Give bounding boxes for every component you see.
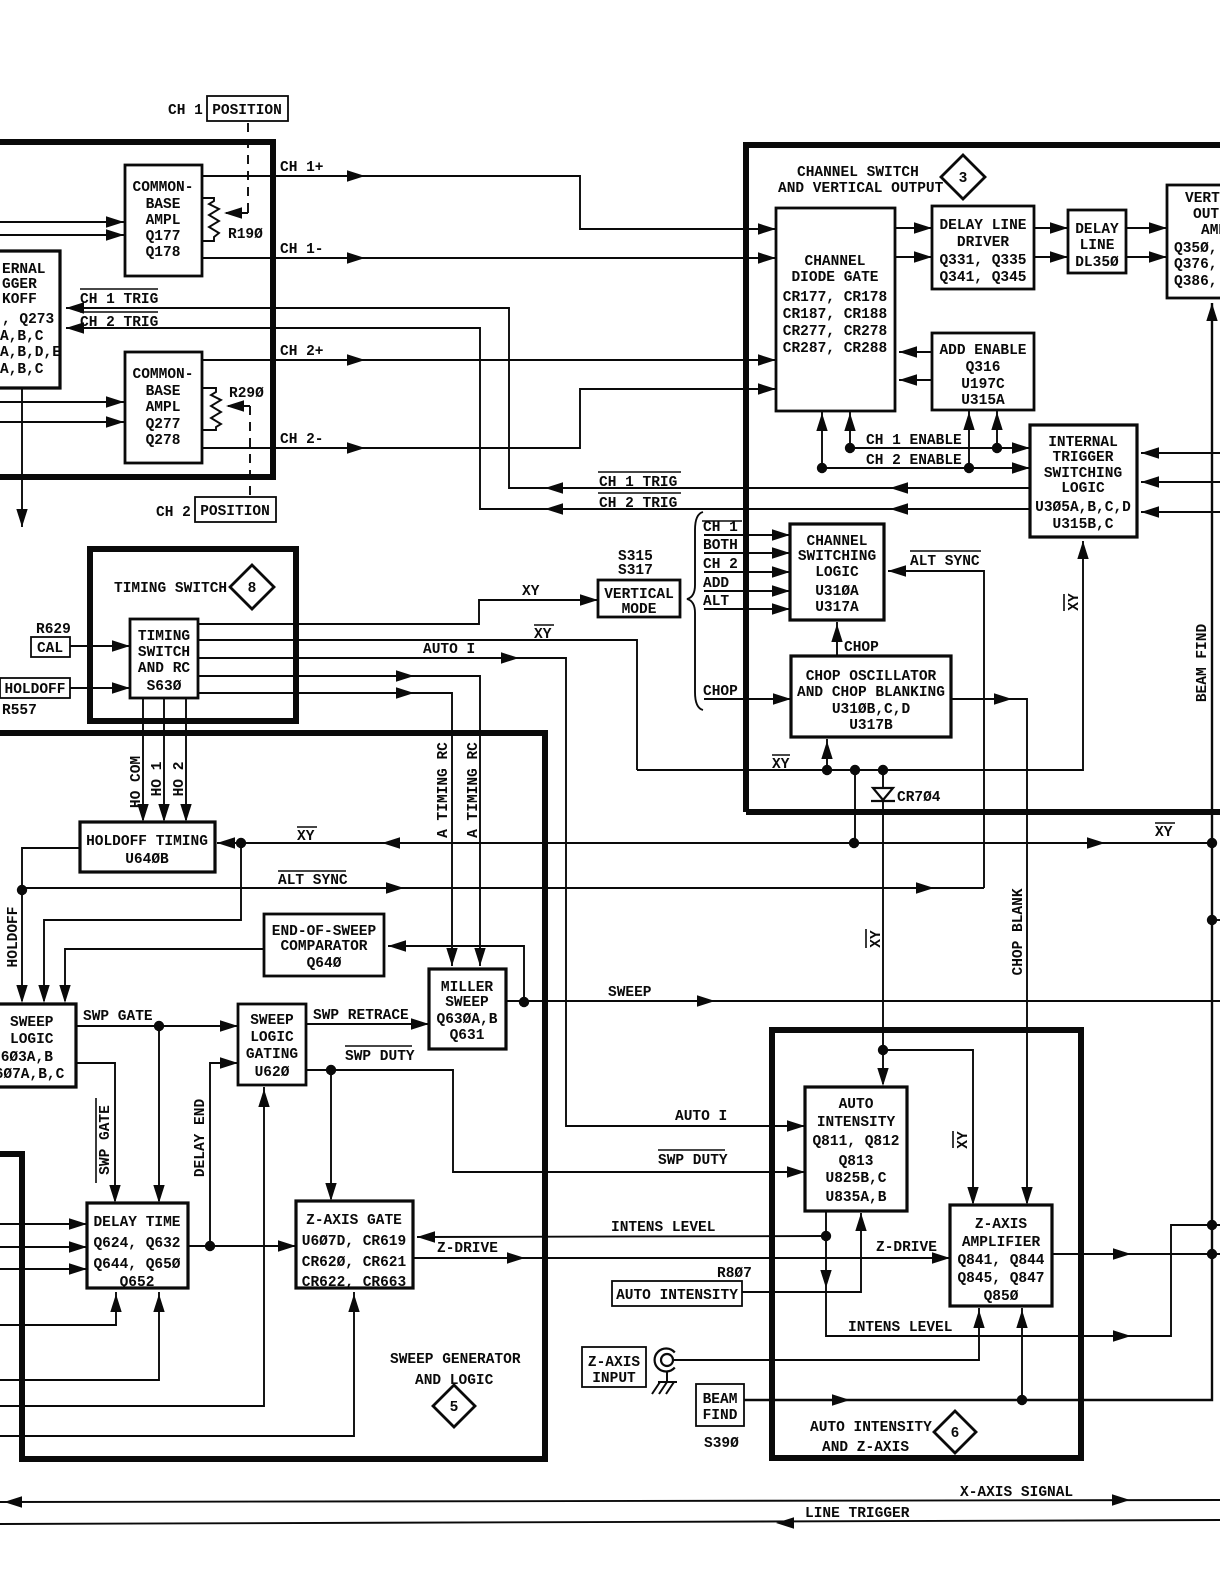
svg-text:U825B,C: U825B,C: [826, 1171, 887, 1187]
svg-text:COMMON-: COMMON-: [133, 367, 194, 383]
wire riser to add enable right: [991, 410, 1002, 448]
label CH 2 TRIG (right set): [598, 493, 681, 512]
control CH 1 POSITION: [168, 96, 288, 121]
svg-text:OUTP: OUTP: [1193, 207, 1220, 223]
svg-text:CHOP: CHOP: [844, 640, 879, 656]
svg-text:5: 5: [450, 1400, 459, 1416]
wire XY to vertical mode: [198, 584, 598, 624]
svg-text:HOLDOFF: HOLDOFF: [5, 682, 66, 698]
svg-text:ADD ENABLE: ADD ENABLE: [939, 343, 1026, 359]
svg-text:INTENS LEVEL: INTENS LEVEL: [611, 1220, 715, 1236]
vertical preamp block partial thick border: [0, 142, 273, 477]
diamond 5: [433, 1385, 475, 1427]
svg-text:CH 1+: CH 1+: [280, 160, 324, 176]
svg-text:INTENSITY: INTENSITY: [817, 1115, 896, 1131]
wire Z-DRIVE output to CRT: [1052, 1248, 1220, 1259]
svg-text:CH 1-: CH 1-: [280, 242, 324, 258]
svg-text:ALT: ALT: [703, 594, 729, 610]
svg-text:TIMING: TIMING: [138, 629, 190, 645]
svg-text:SWEEP: SWEEP: [445, 995, 489, 1011]
svg-text:INPUT: INPUT: [592, 1371, 636, 1387]
wire XY-bar row to holdoff timing: [217, 823, 1217, 849]
wire CH 1 ENABLE: [845, 433, 1030, 454]
enable block ADD ENABLE: [932, 333, 1034, 410]
brace vertical mode: [687, 512, 703, 710]
dashed wire CH2 position to R290 wiper: [226, 400, 250, 495]
svg-text:BASE: BASE: [146, 384, 181, 400]
svg-text:BEAM: BEAM: [703, 1392, 738, 1408]
wire riser XY-bar to chop oscillator: [821, 739, 832, 770]
svg-text:Q85Ø: Q85Ø: [984, 1289, 1019, 1305]
svg-text:ERNAL: ERNAL: [2, 262, 46, 278]
svg-text:AND Z-AXIS: AND Z-AXIS: [822, 1440, 909, 1456]
svg-text:U3Ø5A,B,C,D: U3Ø5A,B,C,D: [1035, 500, 1131, 516]
timing block HOLDOFF TIMING U640B: [80, 822, 215, 872]
wire miller output to comparator: [388, 940, 524, 1002]
oscillator block CHOP OSCILLATOR AND CHOP BLANKING: [791, 656, 951, 737]
delay block DELAY TIME: [87, 1203, 188, 1291]
wire SWEEP output row: [506, 985, 1220, 1007]
wire mode ADD: [703, 576, 790, 597]
wire delay time input 3: [0, 1263, 87, 1274]
svg-text:CR62Ø, CR621: CR62Ø, CR621: [302, 1255, 407, 1271]
wire LINE TRIGGER: [0, 1506, 1220, 1529]
svg-text:LOGIC: LOGIC: [250, 1030, 294, 1046]
svg-text:CHOP BLANK: CHOP BLANK: [1011, 888, 1027, 975]
svg-text:S63Ø: S63Ø: [147, 679, 182, 695]
svg-text:Q278: Q278: [146, 433, 181, 449]
wire comparator output to sweep logic: [59, 949, 264, 1003]
svg-text:A,B,C: A,B,C: [0, 362, 44, 378]
wire input to Q177 upper: [0, 216, 124, 227]
svg-text:Q811, Q812: Q811, Q812: [812, 1134, 899, 1150]
timing switch block 8 thick border: [90, 549, 296, 721]
svg-text:A,B,D,E: A,B,D,E: [0, 345, 61, 361]
control CH 2 POSITION: [156, 497, 276, 522]
svg-text:DRIVER: DRIVER: [957, 235, 1010, 251]
wire ALT SYNC into switching logic: [888, 551, 984, 888]
wire CH 1 TRIG to pickoff: [66, 289, 1030, 494]
wire input to Q277 lower: [0, 416, 124, 427]
wire mode CH 2: [703, 557, 790, 578]
wire add enable to diode gate upper: [899, 346, 932, 357]
dashed wire CH1 position to R190 wiper: [224, 123, 248, 219]
wire INTENS LEVEL into z-axis gate: [417, 1220, 826, 1243]
svg-text:R19Ø: R19Ø: [228, 227, 263, 243]
svg-text:Q35Ø,: Q35Ø,: [1174, 241, 1218, 257]
svg-text:Q845, Q847: Q845, Q847: [957, 1271, 1044, 1287]
svg-text:LINE TRIGGER: LINE TRIGGER: [805, 1506, 910, 1522]
wire enable riser to diode gate left: [816, 411, 827, 468]
wire CHOP into chop oscillator: [703, 684, 791, 705]
svg-text:XY: XY: [956, 1131, 972, 1149]
wire delay time output to z-axis gate: [188, 1240, 296, 1251]
wire SWP RETRACE: [306, 1008, 429, 1030]
diamond 8: [230, 565, 274, 609]
wire diode gate to delay line driver lower: [895, 251, 932, 262]
svg-text:CH 2 TRIG: CH 2 TRIG: [599, 496, 677, 512]
diamond 3: [941, 155, 985, 199]
svg-text:U197C: U197C: [961, 377, 1005, 393]
node to horizontal amplifier: [1207, 915, 1220, 925]
svg-text:CH 1: CH 1: [703, 520, 738, 536]
svg-text:FIND: FIND: [703, 1408, 738, 1424]
svg-text:Q624, Q632: Q624, Q632: [93, 1236, 180, 1252]
wire mode ALT: [703, 594, 790, 615]
svg-text:SWITCHING: SWITCHING: [798, 549, 876, 565]
svg-text:AND VERTICAL OUTPUT: AND VERTICAL OUTPUT: [778, 181, 944, 197]
diode CR704: [855, 770, 941, 1050]
svg-text:CH 1: CH 1: [168, 103, 203, 119]
svg-text:MODE: MODE: [622, 602, 657, 618]
svg-text:CR177, CR178: CR177, CR178: [783, 290, 887, 306]
comparator block END-OF-SWEEP COMPARATOR Q640: [264, 914, 384, 976]
svg-text:HOLDOFF: HOLDOFF: [6, 907, 22, 968]
switch S390 BEAM FIND: [696, 1384, 744, 1452]
wire XY-bar from timing switch: [198, 625, 637, 770]
wire diode gate to delay line driver upper: [895, 222, 932, 233]
svg-text:CHOP OSCILLATOR: CHOP OSCILLATOR: [806, 669, 937, 685]
svg-text:INTERNAL: INTERNAL: [1048, 435, 1118, 451]
svg-text:LOGIC: LOGIC: [1061, 481, 1105, 497]
svg-text:SWEEP: SWEEP: [10, 1015, 54, 1031]
amplifier block Q177 COMMON-BASE AMPL: [125, 165, 202, 276]
svg-text:DIODE GATE: DIODE GATE: [791, 270, 878, 286]
svg-text:AMPLIFIER: AMPLIFIER: [962, 1235, 1041, 1251]
svg-text:HO COM: HO COM: [129, 756, 145, 808]
svg-text:A TIMING RC: A TIMING RC: [466, 742, 482, 838]
svg-text:LOGIC: LOGIC: [10, 1032, 54, 1048]
switch S630 TIMING SWITCH AND RC: [130, 619, 198, 698]
wire beam find branch to z-axis amplifier: [1016, 1308, 1027, 1400]
connector Z-AXIS INPUT: [582, 1347, 675, 1387]
label SWEEP GENERATOR AND LOGIC: [390, 1352, 521, 1389]
svg-text:U317B: U317B: [849, 718, 893, 734]
label AUTO INTENSITY AND Z-AXIS: [810, 1420, 932, 1456]
svg-text:8: 8: [248, 581, 257, 597]
svg-text:GGER: GGER: [2, 277, 37, 293]
svg-text:AUTO: AUTO: [839, 1097, 874, 1113]
svg-text:, Q273: , Q273: [2, 312, 54, 328]
svg-text:ADD: ADD: [703, 576, 729, 592]
svg-text:XY: XY: [1067, 593, 1083, 611]
svg-text:XY: XY: [869, 930, 885, 948]
wire input to Q177 lower: [0, 229, 124, 240]
amplifier block Q277 COMMON-BASE AMPL: [125, 352, 202, 463]
auto intensity block 6 thick border: [772, 1030, 1081, 1458]
svg-text:CH 1 TRIG: CH 1 TRIG: [599, 475, 677, 491]
svg-text:XY: XY: [1155, 825, 1173, 841]
svg-text:Z-AXIS GATE: Z-AXIS GATE: [306, 1213, 402, 1229]
wire SWP GATE: [76, 1009, 238, 1032]
svg-text:CH 2-: CH 2-: [280, 432, 324, 448]
svg-text:CHANNEL: CHANNEL: [805, 254, 866, 270]
wire HO COM: [129, 698, 149, 822]
control R557 HOLDOFF: [0, 678, 130, 719]
svg-text:U31ØB,C,D: U31ØB,C,D: [832, 702, 911, 718]
svg-text:HO 2: HO 2: [172, 762, 188, 797]
wire HO 2: [172, 698, 192, 822]
svg-text:Q177: Q177: [146, 229, 181, 245]
svg-text:INTENS LEVEL: INTENS LEVEL: [848, 1320, 952, 1336]
wire XY-bar into block 6: [877, 1045, 888, 1086]
svg-text:CH 1 ENABLE: CH 1 ENABLE: [866, 433, 962, 449]
wire XY-bar branch to z-axis amplifier: [883, 1050, 979, 1205]
svg-text:CR7Ø4: CR7Ø4: [897, 790, 941, 806]
svg-text:A TIMING RC: A TIMING RC: [436, 742, 452, 838]
wire delay gate riser to sweep logic gating bottom: [0, 1087, 270, 1406]
wire INTENS LEVEL from auto intensity: [820, 1211, 831, 1333]
svg-text:VERTI: VERTI: [1185, 191, 1220, 207]
svg-text:Q386,: Q386,: [1174, 274, 1218, 290]
wire SWP GATE branch to delay time: [153, 1026, 164, 1203]
svg-text:U835A,B: U835A,B: [826, 1190, 887, 1206]
wire INTENS LEVEL to z-axis amplifier and CRT: [826, 1220, 1220, 1342]
svg-text:Q63ØA,B: Q63ØA,B: [437, 1012, 498, 1028]
svg-text:LOGIC: LOGIC: [815, 565, 859, 581]
driver block DELAY LINE DRIVER: [932, 206, 1034, 289]
channel switch block 3 thick border: [746, 145, 1220, 812]
logic block INTERNAL TRIGGER SWITCHING LOGIC: [1030, 425, 1137, 537]
svg-text:Q64Ø: Q64Ø: [307, 956, 342, 972]
svg-text:SWEEP: SWEEP: [250, 1013, 294, 1029]
svg-text:TRIGGER: TRIGGER: [1053, 450, 1114, 466]
wire delay line to vertical output upper: [1126, 222, 1167, 233]
resistor R290: [202, 386, 264, 430]
wire SWP DUTY branch to z-axis gate: [325, 1070, 336, 1201]
wire z-axis input to amplifier: [673, 1308, 985, 1360]
svg-text:U6Ø7A,B,C: U6Ø7A,B,C: [0, 1067, 65, 1083]
svg-text:BOTH: BOTH: [703, 538, 738, 554]
svg-text:CHANNEL: CHANNEL: [807, 534, 868, 550]
wire z-axis gate bottom input: [0, 1292, 360, 1436]
svg-text:R29Ø: R29Ø: [229, 386, 264, 402]
wire AUTO I: [198, 642, 805, 1132]
svg-text:Q316: Q316: [966, 360, 1001, 376]
label XY-bar rotated at block 6 riser: [866, 929, 885, 948]
svg-text:Q331, Q335: Q331, Q335: [939, 253, 1026, 269]
svg-text:CH 1 TRIG: CH 1 TRIG: [80, 292, 158, 308]
wire Z-DRIVE to z-axis amplifier: [413, 1240, 950, 1264]
diamond 6: [934, 1411, 976, 1453]
internal trigger pickoff block (cut at page edge): [0, 251, 61, 388]
svg-text:KOFF: KOFF: [2, 292, 37, 308]
control VERTICAL MODE: [598, 549, 680, 618]
svg-text:U6Ø7D, CR619: U6Ø7D, CR619: [302, 1234, 406, 1250]
svg-text:CR187, CR188: CR187, CR188: [783, 307, 887, 323]
resistor R190: [202, 198, 263, 243]
label TIMING SWITCH: [114, 581, 227, 597]
sweep block MILLER SWEEP Q630: [429, 969, 506, 1049]
svg-text:SWITCHING: SWITCHING: [1044, 466, 1122, 482]
wire SWP DUTY: [306, 1046, 805, 1178]
svg-text:AUTO I: AUTO I: [675, 1109, 727, 1125]
svg-text:ALT SYNC: ALT SYNC: [278, 873, 348, 889]
svg-text:CH 2+: CH 2+: [280, 344, 324, 360]
svg-text:S39Ø: S39Ø: [704, 1436, 739, 1452]
wire delay time input 1: [0, 1218, 87, 1229]
svg-text:DL35Ø: DL35Ø: [1075, 255, 1119, 271]
wire holdoff timing left to sweep logic: [6, 848, 80, 1003]
wire A TIMING RC 2: [198, 687, 458, 966]
svg-text:U62Ø: U62Ø: [255, 1065, 290, 1081]
svg-text:A,B,C: A,B,C: [0, 329, 44, 345]
svg-text:U315B,C: U315B,C: [1053, 517, 1114, 533]
wire CH 2-: [202, 383, 776, 453]
svg-text:Q376,: Q376,: [1174, 257, 1218, 273]
svg-text:ALT SYNC: ALT SYNC: [910, 554, 980, 570]
svg-text:U315A: U315A: [961, 393, 1005, 409]
wire XY-bar row in channel switch: [637, 541, 1089, 775]
svg-text:DELAY TIME: DELAY TIME: [93, 1215, 180, 1231]
wire CH 2+: [202, 344, 776, 366]
svg-text:Q178: Q178: [146, 245, 181, 261]
svg-text:HOLDOFF TIMING: HOLDOFF TIMING: [86, 834, 208, 850]
wire CH 1+: [202, 160, 776, 235]
wire X-AXIS SIGNAL: [0, 1485, 1220, 1508]
svg-text:S317: S317: [618, 563, 653, 579]
svg-text:SWP RETRACE: SWP RETRACE: [313, 1008, 409, 1024]
wire into trigger logic right 2: [1141, 476, 1220, 487]
svg-text:END-OF-SWEEP: END-OF-SWEEP: [272, 924, 377, 940]
svg-text:CH 2: CH 2: [156, 505, 191, 521]
svg-text:Q813: Q813: [839, 1154, 874, 1170]
svg-text:U6Ø3A,B: U6Ø3A,B: [0, 1050, 53, 1066]
svg-text:Z-AXIS: Z-AXIS: [975, 1217, 1028, 1233]
wire SWP GATE-bar to delay time: [76, 1063, 121, 1203]
svg-text:X-AXIS SIGNAL: X-AXIS SIGNAL: [960, 1485, 1073, 1501]
wire into trigger logic right 3: [1141, 506, 1220, 517]
svg-text:Q644, Q65Ø: Q644, Q65Ø: [93, 1257, 180, 1273]
svg-text:CR287, CR288: CR287, CR288: [783, 341, 887, 357]
svg-text:SWITCH: SWITCH: [138, 645, 190, 661]
gate block Z-AXIS GATE: [296, 1201, 413, 1291]
svg-text:SWP DUTY: SWP DUTY: [658, 1153, 728, 1169]
control R807 AUTO INTENSITY: [612, 1213, 867, 1306]
svg-text:Z-DRIVE: Z-DRIVE: [437, 1241, 498, 1257]
wire delay time bottom input 1: [0, 1292, 122, 1325]
label CH 1 TRIG (right set): [598, 472, 681, 491]
svg-text:DELAY END: DELAY END: [193, 1099, 209, 1178]
wire ALT SYNC row: [17, 871, 984, 895]
svg-text:CR277, CR278: CR277, CR278: [783, 324, 887, 340]
logic block SWEEP LOGIC GATING U620: [238, 1004, 306, 1085]
svg-text:Z-AXIS: Z-AXIS: [588, 1355, 641, 1371]
wire enable riser to diode gate right: [844, 411, 855, 448]
wire down from pickoff: [16, 388, 27, 527]
svg-text:POSITION: POSITION: [212, 103, 282, 119]
svg-text:AND RC: AND RC: [138, 661, 191, 677]
wire delay line to vertical output lower: [1126, 251, 1167, 262]
svg-text:Q341, Q345: Q341, Q345: [939, 270, 1026, 286]
wire beam find row and right riser: [744, 303, 1218, 1406]
logic block SWEEP LOGIC (cut at page edge): [0, 1004, 76, 1087]
svg-text:AND CHOP BLANKING: AND CHOP BLANKING: [797, 685, 945, 701]
svg-text:TIMING SWITCH: TIMING SWITCH: [114, 581, 227, 597]
sweep generator block 5 thick border: [0, 733, 545, 1459]
wire add enable to diode gate lower: [899, 374, 932, 385]
svg-text:Q841, Q844: Q841, Q844: [957, 1253, 1044, 1269]
svg-text:CHANNEL SWITCH: CHANNEL SWITCH: [797, 165, 919, 181]
svg-text:COMMON-: COMMON-: [133, 180, 194, 196]
svg-text:CH 2: CH 2: [703, 557, 738, 573]
svg-text:U317A: U317A: [815, 600, 859, 616]
wire riser to add enable left: [963, 410, 974, 468]
svg-text:CH 2 ENABLE: CH 2 ENABLE: [866, 453, 962, 469]
svg-text:DELAY: DELAY: [1075, 222, 1119, 238]
svg-text:GATING: GATING: [246, 1047, 298, 1063]
svg-text:HO 1: HO 1: [150, 761, 166, 796]
svg-text:CHOP: CHOP: [703, 684, 738, 700]
intensity block AUTO INTENSITY: [805, 1087, 907, 1211]
wire delay time input 2: [0, 1241, 87, 1252]
svg-text:Q652: Q652: [120, 1275, 155, 1291]
svg-text:SWP GATE: SWP GATE: [83, 1009, 153, 1025]
svg-text:COMPARATOR: COMPARATOR: [280, 939, 367, 955]
control R629 CAL: [31, 622, 130, 657]
svg-text:BASE: BASE: [146, 197, 181, 213]
svg-text:LINE: LINE: [1080, 238, 1115, 254]
svg-text:R8Ø7: R8Ø7: [717, 1266, 752, 1282]
wire mode CH 1: [702, 520, 790, 541]
svg-text:R557: R557: [2, 703, 37, 719]
svg-text:SWP DUTY: SWP DUTY: [345, 1049, 415, 1065]
svg-text:U64ØB: U64ØB: [125, 852, 169, 868]
delay line DL350: [1068, 210, 1126, 273]
svg-text:VERTICAL: VERTICAL: [604, 587, 674, 603]
wire CH 2 TRIG to pickoff: [66, 312, 1030, 515]
svg-text:SWEEP: SWEEP: [608, 985, 652, 1001]
wire CHOP BLANK: [951, 693, 1033, 1205]
gate block CHANNEL DIODE GATE: [776, 208, 895, 411]
wire A TIMING RC 1: [198, 670, 486, 966]
svg-text:AUTO INTENSITY: AUTO INTENSITY: [810, 1420, 932, 1436]
label CHANNEL SWITCH AND VERTICAL OUTPUT: [778, 165, 944, 197]
wire mode BOTH: [703, 538, 790, 559]
svg-text:POSITION: POSITION: [200, 504, 270, 520]
svg-text:CR622, CR663: CR622, CR663: [302, 1275, 406, 1291]
amplifier block VERTICAL OUTPUT AMP (cut at edge): [1167, 185, 1220, 298]
wire driver to delay line lower: [1034, 251, 1068, 262]
svg-text:DELAY LINE: DELAY LINE: [939, 218, 1026, 234]
wire DELAY END to sweep logic gating: [193, 1057, 238, 1246]
svg-text:3: 3: [959, 171, 968, 187]
svg-text:AMPL: AMPL: [146, 400, 181, 416]
svg-text:Z-DRIVE: Z-DRIVE: [876, 1240, 937, 1256]
svg-text:AUTO I: AUTO I: [423, 642, 475, 658]
ground chassis: [652, 1371, 677, 1394]
svg-text:Q277: Q277: [146, 417, 181, 433]
svg-text:R629: R629: [36, 622, 71, 638]
svg-text:AUTO INTENSITY: AUTO INTENSITY: [616, 1288, 738, 1304]
wire into trigger logic right 1: [1141, 447, 1220, 458]
label XY-bar rotated at trigger logic riser: [1064, 593, 1083, 611]
wire CH 2 ENABLE: [817, 453, 1030, 474]
svg-text:XY: XY: [522, 584, 540, 600]
svg-text:6: 6: [951, 1426, 960, 1442]
svg-text:Q631: Q631: [450, 1028, 485, 1044]
svg-text:SWEEP GENERATOR: SWEEP GENERATOR: [390, 1352, 521, 1368]
wire CHOP riser to switching logic: [831, 622, 879, 656]
svg-text:SWP GATE: SWP GATE: [98, 1105, 114, 1175]
svg-text:MILLER: MILLER: [441, 980, 494, 996]
wire input to Q277 upper: [0, 396, 124, 407]
wire XY-bar branch to sweep logic: [38, 843, 241, 1003]
svg-text:U31ØA: U31ØA: [815, 584, 859, 600]
logic block CHANNEL SWITCHING LOGIC: [790, 524, 884, 620]
amplifier block Z-AXIS AMPLIFIER: [950, 1205, 1052, 1306]
svg-text:AMPL: AMPL: [146, 213, 181, 229]
